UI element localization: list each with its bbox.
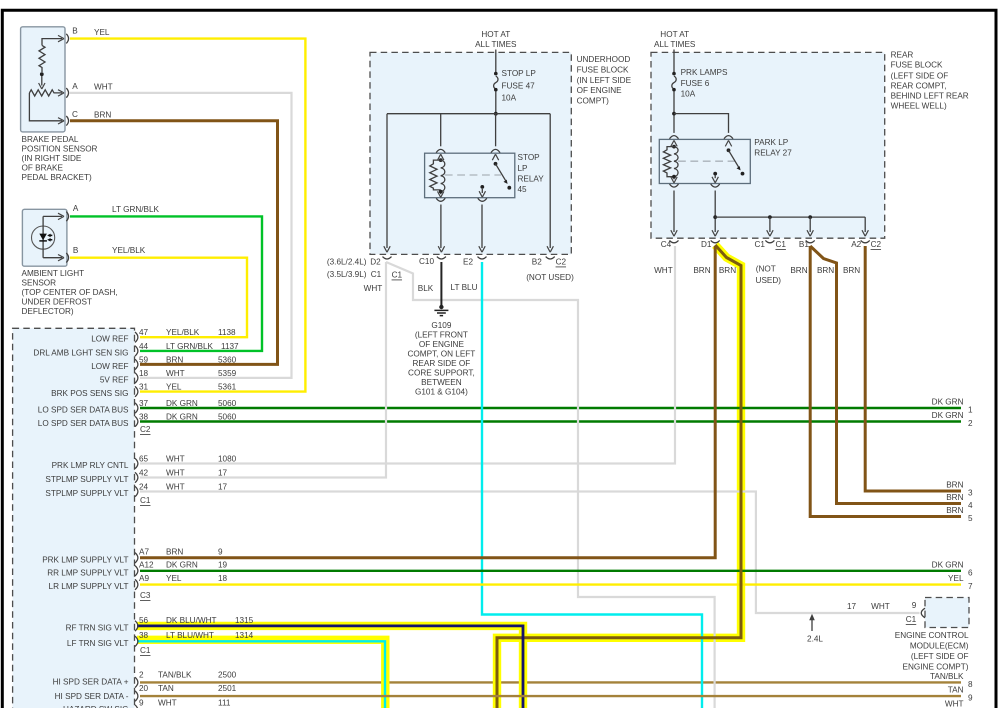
wire DK GRN serial data BCM 38 to node 2 [140, 420, 961, 422]
svg-text:CORE SUPPORT,: CORE SUPPORT, [408, 369, 475, 378]
svg-text:A2: A2 [851, 240, 861, 249]
wire highlight band RF TRN SIG (56 DK BLU/WHT 1315) [137, 626, 523, 708]
node fuse output [494, 112, 498, 116]
wire BLK C10 to ground G109 [440, 262, 442, 306]
branch to relay switch [674, 114, 729, 133]
wire LT BLU/WHT core BCM 38 [137, 641, 385, 708]
pin C lead [29, 93, 62, 121]
relay switch input arc [724, 136, 733, 139]
svg-text:BRAKE PEDAL: BRAKE PEDAL [22, 135, 79, 144]
svg-text:9: 9 [139, 699, 144, 708]
body control module (dashed box, left) [13, 328, 135, 713]
wire BRN B1 to node 5 [810, 246, 961, 517]
svg-text:A12: A12 [139, 560, 154, 569]
svg-text:OF ENGINE: OF ENGINE [419, 340, 465, 349]
svg-text:DEFLECTOR): DEFLECTOR) [22, 307, 74, 316]
svg-text:G109: G109 [431, 321, 451, 330]
pin A connector arc [66, 88, 68, 98]
wire WHT D2 branch to BCM 42 [140, 262, 386, 478]
svg-text:19: 19 [218, 560, 228, 569]
pin B lead [42, 39, 62, 46]
svg-text:42: 42 [139, 468, 149, 477]
svg-text:DK BLU/WHT: DK BLU/WHT [166, 616, 217, 625]
svg-text:RELAY 27: RELAY 27 [754, 148, 792, 157]
svg-text:BRK POS SENS SIG: BRK POS SENS SIG [51, 389, 128, 398]
svg-text:6: 6 [968, 568, 973, 577]
svg-text:WHT: WHT [364, 284, 383, 293]
svg-text:(3.6L/2.4L): (3.6L/2.4L) [327, 258, 367, 267]
svg-text:TAN: TAN [158, 684, 174, 693]
svg-text:18: 18 [139, 369, 149, 378]
svg-text:B: B [72, 27, 78, 36]
svg-text:18: 18 [218, 574, 228, 583]
svg-text:ENGINE CONTROL: ENGINE CONTROL [895, 631, 969, 640]
svg-text:3: 3 [968, 489, 973, 498]
svg-text:LOW REF: LOW REF [91, 335, 128, 344]
ECM labels [847, 601, 969, 672]
wire highlight band park lamp feed from D1 [497, 245, 741, 708]
svg-text:AMBIENT LIGHT: AMBIENT LIGHT [22, 269, 85, 278]
wire BRN D1 to BCM A7 [140, 246, 715, 558]
wire WHT D2 branch to bottom edge [386, 262, 715, 708]
svg-text:BRN: BRN [166, 355, 183, 364]
svg-text:OF ENGINE: OF ENGINE [577, 86, 623, 95]
svg-text:BRN: BRN [817, 266, 834, 275]
svg-text:5361: 5361 [218, 383, 237, 392]
svg-text:2: 2 [139, 671, 144, 680]
relay switch [727, 148, 731, 152]
svg-text:PARK LP: PARK LP [754, 138, 789, 147]
svg-text:47: 47 [139, 328, 149, 337]
svg-text:FUSE BLOCK: FUSE BLOCK [577, 66, 629, 75]
wire WHT BCM 24 to ECM [140, 492, 920, 614]
rear fuse block caption [891, 51, 969, 111]
svg-text:(LEFT FRONT: (LEFT FRONT [415, 331, 468, 340]
wire YEL BCM A9 to node 7 [140, 583, 961, 585]
svg-text:WHT: WHT [158, 699, 177, 708]
node C1 [768, 215, 772, 219]
pin C1 arc [765, 240, 774, 242]
wire DK GRN BCM A12 to node 6 [140, 570, 961, 572]
brake pedal position sensor box [21, 27, 65, 132]
ambient light sensor caption [22, 269, 118, 316]
svg-text:DRL AMB LGHT SEN SIG: DRL AMB LGHT SEN SIG [33, 348, 128, 357]
photocell circle [31, 226, 54, 249]
svg-text:LO SPD SER DATA BUS: LO SPD SER DATA BUS [38, 406, 129, 415]
svg-text:31: 31 [139, 383, 149, 392]
svg-text:PRK LMP SUPPLY VLT: PRK LMP SUPPLY VLT [42, 555, 128, 564]
svg-text:LF TRN SIG VLT: LF TRN SIG VLT [67, 639, 129, 648]
stop lp fuse 47 [494, 72, 498, 76]
svg-text:A9: A9 [139, 574, 149, 583]
svg-text:5360: 5360 [218, 355, 237, 364]
pin A connector arc [66, 212, 68, 222]
svg-text:44: 44 [139, 342, 149, 351]
svg-text:UNDER DEFROST: UNDER DEFROST [22, 298, 93, 307]
svg-text:BRN: BRN [790, 266, 807, 275]
ground G109 caption [408, 321, 476, 396]
svg-text:BRN: BRN [946, 506, 963, 515]
svg-text:9: 9 [968, 694, 973, 703]
svg-text:LT BLU: LT BLU [451, 283, 478, 292]
ground G109 symbol [434, 305, 448, 316]
wire BRN B1 branch to node 4 [810, 246, 961, 504]
park lp relay 27 box [659, 139, 750, 183]
svg-text:C2: C2 [140, 425, 151, 434]
svg-text:BEHIND LEFT REAR: BEHIND LEFT REAR [891, 92, 969, 101]
underhood fuse block (dashed box) [370, 52, 571, 254]
node B1 [808, 215, 812, 219]
wire LT GRN/BLK ambient sensor A to BCM 44 [70, 216, 262, 351]
svg-text:WHT: WHT [166, 482, 185, 491]
svg-text:17: 17 [218, 468, 228, 477]
svg-text:24: 24 [139, 482, 149, 491]
wire WHT rear block C4 to BCM 65 [140, 246, 675, 464]
relay coil [672, 145, 676, 149]
wire TAN/BLK BCM 2 to node 8 [140, 681, 961, 683]
svg-text:5: 5 [968, 514, 973, 523]
pin D2 arc [383, 257, 392, 259]
wire to A2 pin [864, 217, 866, 232]
svg-text:FUSE BLOCK: FUSE BLOCK [891, 61, 943, 70]
resistor (fixed half) [39, 45, 45, 72]
svg-text:(IN RIGHT SIDE: (IN RIGHT SIDE [22, 154, 82, 163]
wiper arrow [41, 76, 43, 86]
svg-text:4: 4 [968, 501, 973, 510]
wire bus to D2 [386, 114, 388, 248]
svg-text:1314: 1314 [235, 631, 254, 640]
svg-text:BRN: BRN [946, 481, 963, 490]
pin C connector arc [66, 116, 68, 126]
svg-text:D2: D2 [370, 258, 381, 267]
wire to C1 pin [769, 217, 771, 232]
svg-text:HI SPD SER DATA -: HI SPD SER DATA - [55, 692, 129, 701]
ambient light sensor internals [31, 212, 68, 263]
svg-text:RF TRN SIG VLT: RF TRN SIG VLT [66, 623, 129, 632]
svg-text:HOT AT: HOT AT [481, 30, 510, 39]
pin B1 arc [806, 240, 815, 242]
svg-text:LR LMP SUPPLY VLT: LR LMP SUPPLY VLT [49, 582, 129, 591]
svg-text:SENSOR: SENSOR [22, 279, 57, 288]
stop lp relay 45 box [425, 153, 515, 198]
svg-text:1080: 1080 [218, 454, 237, 463]
svg-text:59: 59 [139, 355, 149, 364]
svg-text:LT GRN/BLK: LT GRN/BLK [166, 342, 214, 351]
node (wiper tap) [40, 72, 44, 76]
svg-text:HOT AT: HOT AT [660, 30, 689, 39]
wire DK BLU/WHT core BCM 56 [137, 626, 523, 708]
svg-text:DK GRN: DK GRN [166, 560, 198, 569]
svg-text:PRK LMP RLY CNTL: PRK LMP RLY CNTL [52, 461, 129, 470]
pin C10 arc [437, 257, 446, 259]
svg-text:WHT: WHT [166, 468, 185, 477]
wire YEL brake sensor B to BCM 31 [70, 39, 305, 392]
svg-text:BRN: BRN [166, 547, 183, 556]
svg-text:ALL TIMES: ALL TIMES [654, 40, 696, 49]
svg-text:17: 17 [218, 482, 228, 491]
svg-text:RELAY: RELAY [518, 175, 545, 184]
svg-text:STPLMP SUPPLY VLT: STPLMP SUPPLY VLT [45, 489, 128, 498]
svg-text:FUSE 47: FUSE 47 [502, 82, 536, 91]
svg-text:1315: 1315 [235, 616, 254, 625]
wire bus to relay coil [440, 114, 442, 147]
svg-text:DK GRN: DK GRN [166, 399, 198, 408]
rear fuse block internals [659, 50, 869, 243]
bus bar [387, 113, 550, 115]
engine control module ECM (dashed box) [925, 598, 969, 628]
wire bus to B2 [549, 114, 551, 248]
relay switch [494, 162, 498, 166]
svg-text:DK GRN: DK GRN [166, 412, 198, 421]
BCM connector arcs [135, 332, 138, 713]
wire YEL/BLK ambient sensor B to BCM 47 [70, 258, 247, 338]
wire fuse to node [673, 92, 675, 133]
svg-text:A7: A7 [139, 547, 149, 556]
wire BRN brake sensor C to BCM 59 [70, 121, 278, 365]
wire WHT brake sensor A to BCM 18 [70, 93, 292, 378]
svg-text:(3.5L/3.9L): (3.5L/3.9L) [327, 270, 367, 279]
ambient light sensor pin labels [73, 204, 160, 255]
pin A2 arc [861, 240, 870, 242]
svg-text:WHT: WHT [166, 369, 185, 378]
svg-text:C1: C1 [140, 646, 151, 655]
svg-text:WHT: WHT [945, 700, 964, 709]
svg-text:5359: 5359 [218, 369, 237, 378]
svg-text:10A: 10A [681, 90, 696, 99]
svg-text:LOW REF: LOW REF [91, 362, 128, 371]
pin D1 arc [711, 240, 720, 242]
node fuse output [672, 112, 676, 116]
rear fuse block (dashed box) [651, 52, 885, 238]
svg-text:STOP: STOP [518, 153, 541, 162]
relay coil input arc [436, 149, 445, 152]
relay coil input arc [670, 136, 679, 139]
svg-text:G101 & G104): G101 & G104) [415, 388, 468, 397]
relay link (dashed) [445, 174, 501, 176]
svg-text:BRN: BRN [94, 110, 111, 119]
svg-text:2: 2 [968, 419, 973, 428]
relay coil [439, 158, 443, 162]
svg-text:REAR SIDE OF: REAR SIDE OF [413, 359, 471, 368]
svg-text:POSITION SENSOR: POSITION SENSOR [22, 145, 98, 154]
feed from hot at all times [495, 50, 497, 73]
underhood fuse block internals [383, 50, 555, 260]
pin E2 arc [478, 257, 487, 259]
relay switch output arc [711, 184, 720, 187]
potentiometer element [29, 90, 62, 96]
wire LT BLU from E2 to bottom edge [482, 262, 702, 708]
svg-text:C4: C4 [661, 240, 672, 249]
bus to other pins [715, 216, 865, 218]
svg-text:56: 56 [139, 616, 149, 625]
svg-text:(NOT USED): (NOT USED) [526, 273, 574, 282]
svg-text:COMPT): COMPT) [577, 97, 610, 106]
svg-text:9: 9 [218, 547, 223, 556]
brake pedal sensor caption [22, 135, 98, 182]
svg-text:5V REF: 5V REF [100, 375, 129, 384]
underhood pin labels [327, 257, 574, 293]
svg-text:7: 7 [968, 582, 973, 591]
wire BRN core of highlighted park lamp feed [497, 245, 741, 708]
svg-text:10A: 10A [502, 94, 517, 103]
node D1 branch [713, 215, 717, 219]
ambient light sensor box [22, 209, 67, 266]
svg-text:DK GRN: DK GRN [932, 398, 964, 407]
wire coil to C10 [440, 205, 442, 249]
svg-text:PEDAL BRACKET): PEDAL BRACKET) [22, 173, 92, 182]
prk lamps fuse 6 [672, 72, 676, 76]
svg-text:REAR: REAR [891, 51, 914, 60]
wire highlight band LF TRN SIG (38 LT BLU/WHT 1314) [137, 640, 385, 708]
svg-text:TAN: TAN [948, 686, 964, 695]
svg-text:WHT: WHT [166, 454, 185, 463]
wire TAN BCM 20 to node 9 [140, 695, 961, 697]
svg-text:BRN: BRN [693, 266, 710, 275]
svg-text:8: 8 [968, 680, 973, 689]
svg-text:DK GRN: DK GRN [932, 411, 964, 420]
relay coil output arc [670, 184, 679, 187]
svg-text:2501: 2501 [218, 684, 237, 693]
svg-text:COMPT, ON LEFT: COMPT, ON LEFT [408, 350, 476, 359]
svg-text:B1: B1 [799, 240, 809, 249]
wire switch to E2 [481, 205, 483, 249]
svg-text:LT BLU/WHT: LT BLU/WHT [166, 631, 214, 640]
svg-text:C10: C10 [419, 257, 434, 266]
svg-text:45: 45 [518, 185, 528, 194]
svg-text:65: 65 [139, 454, 149, 463]
svg-text:YEL: YEL [94, 28, 110, 37]
svg-text:C2: C2 [871, 240, 882, 249]
svg-text:TAN/BLK: TAN/BLK [930, 672, 964, 681]
svg-text:C3: C3 [140, 591, 151, 600]
relay switch output arc [478, 198, 487, 201]
svg-text:WHT: WHT [654, 266, 673, 275]
svg-text:2500: 2500 [218, 671, 237, 680]
svg-text:TAN/BLK: TAN/BLK [158, 671, 192, 680]
svg-text:WHT: WHT [871, 602, 890, 611]
svg-text:1138: 1138 [218, 328, 236, 337]
svg-text:BLK: BLK [418, 284, 434, 293]
photodiode symbol [39, 234, 47, 241]
svg-text:C1: C1 [775, 240, 786, 249]
svg-text:PRK LAMPS: PRK LAMPS [681, 68, 728, 77]
svg-text:RR LMP SUPPLY VLT: RR LMP SUPPLY VLT [47, 568, 128, 577]
pin B connector arc [66, 253, 68, 263]
2.4L pointer arrow [811, 619, 813, 632]
svg-text:BRN: BRN [719, 266, 736, 275]
svg-text:2.4L: 2.4L [807, 634, 823, 643]
svg-text:FUSE 6: FUSE 6 [681, 79, 710, 88]
svg-text:C1: C1 [392, 271, 403, 280]
svg-text:C1: C1 [754, 240, 765, 249]
svg-text:BRN: BRN [843, 266, 860, 275]
svg-text:WHEEL WELL): WHEEL WELL) [891, 102, 947, 111]
svg-text:E2: E2 [463, 258, 473, 267]
svg-text:5060: 5060 [218, 412, 237, 421]
svg-text:1137: 1137 [221, 342, 239, 351]
svg-text:111: 111 [218, 699, 231, 708]
svg-text:USED): USED) [756, 276, 782, 285]
wire DK GRN serial data BCM 37 to node 1 [140, 407, 961, 409]
svg-text:38: 38 [139, 412, 149, 421]
svg-text:LT GRN/BLK: LT GRN/BLK [112, 205, 160, 214]
rear block pin labels [654, 240, 881, 285]
wire BRN A2 to node 3 [865, 246, 961, 491]
pin C4 arc [670, 240, 679, 242]
right edge node labels [930, 398, 973, 709]
svg-text:STPLMP SUPPLY VLT: STPLMP SUPPLY VLT [45, 475, 128, 484]
svg-text:WHT: WHT [94, 83, 113, 92]
relay switch input arc [491, 149, 500, 152]
svg-text:YEL: YEL [166, 574, 182, 583]
svg-text:ENGINE COMPT): ENGINE COMPT) [903, 663, 969, 672]
BCM wire id texts [139, 328, 254, 708]
pin B2 arc [546, 257, 555, 259]
svg-text:REAR COMPT,: REAR COMPT, [891, 82, 947, 91]
svg-text:(TOP CENTER OF DASH,: (TOP CENTER OF DASH, [22, 288, 118, 297]
svg-text:STOP LP: STOP LP [502, 69, 537, 78]
svg-text:ALL TIMES: ALL TIMES [475, 40, 517, 49]
svg-text:OF BRAKE: OF BRAKE [22, 164, 64, 173]
pin B connector arc [66, 34, 68, 44]
svg-text:MODULE(ECM): MODULE(ECM) [910, 642, 969, 651]
svg-text:1: 1 [968, 406, 973, 415]
ECM connector arc [921, 608, 925, 618]
relay coil output arc [436, 198, 445, 201]
brake pedal position sensor internals [29, 34, 68, 126]
svg-text:UNDERHOOD: UNDERHOOD [577, 55, 631, 64]
svg-text:C1: C1 [371, 270, 382, 279]
wire coil to C4 [673, 191, 675, 233]
relay link (dashed) [678, 160, 736, 162]
BCM left pin name labels [33, 335, 129, 713]
svg-text:A: A [73, 204, 79, 213]
svg-text:BRN: BRN [946, 493, 963, 502]
svg-text:(LEFT SIDE OF: (LEFT SIDE OF [911, 652, 969, 661]
svg-text:(IN LEFT SIDE: (IN LEFT SIDE [577, 76, 632, 85]
svg-text:38: 38 [139, 631, 149, 640]
svg-text:HI SPD SER DATA +: HI SPD SER DATA + [53, 678, 129, 687]
svg-text:20: 20 [139, 684, 149, 693]
svg-text:9: 9 [912, 601, 917, 610]
wire switch to D1 [714, 191, 716, 233]
svg-text:(NOT: (NOT [756, 264, 776, 273]
svg-text:C1: C1 [140, 496, 151, 505]
svg-text:DK GRN: DK GRN [932, 560, 964, 569]
feed from hot at all times [673, 50, 675, 73]
svg-text:D1: D1 [701, 240, 712, 249]
svg-text:5060: 5060 [218, 399, 237, 408]
svg-text:17: 17 [847, 602, 857, 611]
wire to B1 pin [809, 217, 811, 232]
svg-text:37: 37 [139, 399, 149, 408]
wire fuse to bus [495, 92, 497, 114]
svg-text:C1: C1 [906, 615, 917, 624]
wire fuse node to relay switch [495, 114, 497, 147]
brake pedal sensor pin labels [72, 27, 113, 120]
svg-text:B: B [73, 246, 79, 255]
internal leads [43, 216, 62, 257]
svg-text:LO SPD SER DATA BUS: LO SPD SER DATA BUS [38, 419, 129, 428]
svg-text:C2: C2 [556, 258, 567, 267]
svg-text:(LEFT SIDE OF: (LEFT SIDE OF [891, 72, 949, 81]
svg-text:C: C [72, 110, 78, 119]
svg-text:BETWEEN: BETWEEN [421, 378, 462, 387]
svg-text:YEL/BLK: YEL/BLK [112, 246, 146, 255]
svg-text:B2: B2 [532, 258, 542, 267]
svg-text:LP: LP [518, 164, 529, 173]
svg-text:A: A [72, 82, 78, 91]
